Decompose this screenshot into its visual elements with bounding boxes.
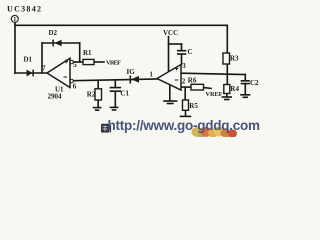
svg-text:VREF: VREF <box>106 59 121 66</box>
svg-text:IG: IG <box>127 68 136 76</box>
svg-text:2: 2 <box>182 78 186 86</box>
svg-text:1: 1 <box>13 17 16 23</box>
svg-text:1: 1 <box>150 71 154 78</box>
svg-text:VCC: VCC <box>163 29 178 37</box>
svg-text:C1: C1 <box>120 90 129 98</box>
svg-text:R4: R4 <box>230 85 239 93</box>
svg-text:http://www.go-gddq.com: http://www.go-gddq.com <box>108 118 261 133</box>
svg-text:VREF: VREF <box>206 91 223 98</box>
svg-text:5: 5 <box>73 61 77 69</box>
svg-text:D1: D1 <box>24 56 33 64</box>
svg-text:3: 3 <box>182 62 186 70</box>
svg-text:R1: R1 <box>83 49 92 57</box>
svg-text:C2: C2 <box>250 79 259 87</box>
svg-text:2904: 2904 <box>48 93 63 101</box>
svg-text:C: C <box>188 48 193 56</box>
svg-text:R2: R2 <box>87 91 96 99</box>
svg-text:6: 6 <box>73 83 77 91</box>
svg-text:7: 7 <box>42 65 46 73</box>
svg-text:R3: R3 <box>230 55 239 63</box>
svg-text:R6: R6 <box>188 76 197 84</box>
svg-text:D2: D2 <box>49 29 58 37</box>
svg-text:R5: R5 <box>189 102 198 110</box>
